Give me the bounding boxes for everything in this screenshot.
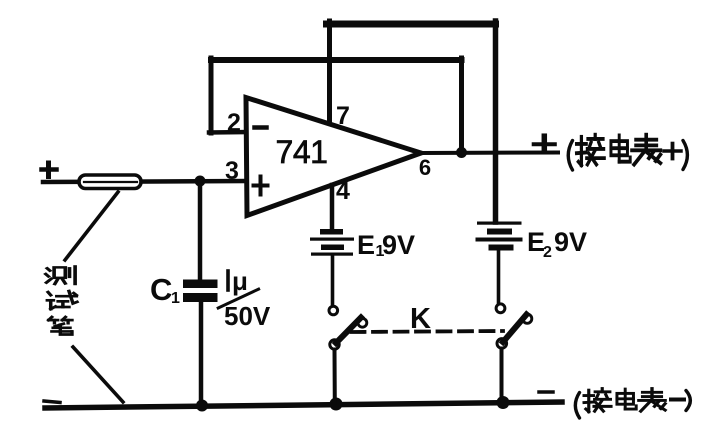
svg-text:9V: 9V [382,230,415,260]
svg-text:2: 2 [543,244,552,261]
svg-text:6: 6 [419,155,431,180]
svg-text:K: K [410,303,431,335]
svg-text:4: 4 [336,177,350,205]
svg-text:7: 7 [336,102,350,130]
svg-text:9V: 9V [554,227,587,257]
svg-text:E: E [357,230,375,260]
svg-text:1: 1 [171,290,180,307]
svg-text:50V: 50V [224,301,271,331]
svg-text:741: 741 [276,134,328,170]
svg-text:μ: μ [232,266,248,296]
svg-text:2: 2 [227,109,241,137]
svg-text:3: 3 [225,157,239,185]
svg-text:C: C [150,272,172,307]
